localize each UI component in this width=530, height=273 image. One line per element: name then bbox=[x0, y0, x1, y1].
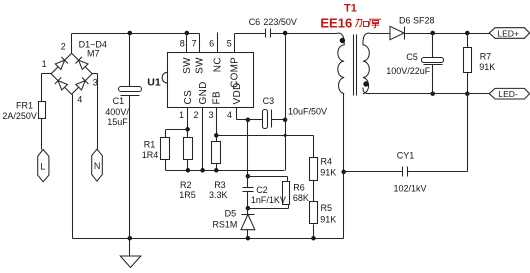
fuse FR1 bbox=[39, 102, 46, 119]
node junction D5 top bbox=[246, 206, 251, 211]
svg-text:C1: C1 bbox=[113, 96, 125, 106]
wire C3-railA vertical bbox=[285, 120, 287, 171]
svg-text:C3: C3 bbox=[263, 96, 275, 106]
wire CS to R1 bbox=[166, 130, 188, 138]
svg-text:R4: R4 bbox=[321, 157, 333, 167]
wire C3 left lead bbox=[248, 119, 263, 121]
wire C6 node vertical bbox=[285, 34, 287, 120]
transformer T1 core bbox=[354, 35, 357, 96]
pin label NC pin6 bbox=[213, 57, 224, 72]
svg-text:R2: R2 bbox=[180, 180, 192, 190]
svg-text:L: L bbox=[40, 162, 45, 172]
svg-text:C5: C5 bbox=[406, 52, 418, 62]
svg-text:2A/250V: 2A/250V bbox=[2, 111, 37, 121]
node junction R2 bottom bbox=[186, 160, 191, 173]
node junction C2 top bbox=[246, 174, 251, 179]
node junction FB-C3 rail bbox=[284, 134, 287, 137]
capacitor C6 bbox=[266, 29, 271, 38]
node junction CY1 tap bbox=[341, 170, 346, 175]
node junction VDD bbox=[246, 118, 251, 123]
svg-text:LED+: LED+ bbox=[497, 28, 519, 38]
svg-text:D5: D5 bbox=[225, 209, 237, 219]
pin 3 bbox=[208, 108, 216, 136]
svg-text:VDD: VDD bbox=[232, 82, 243, 104]
pin 3 bridge bbox=[93, 78, 98, 88]
label C3 bbox=[263, 96, 275, 106]
pin label FB pin3 bbox=[212, 91, 223, 105]
wire bridge right to N bbox=[93, 74, 98, 150]
svg-text:3.3K: 3.3K bbox=[209, 190, 228, 200]
svg-text:EE16: EE16 bbox=[320, 15, 352, 30]
pin 6 NC stub bbox=[209, 33, 217, 53]
label C1 bbox=[113, 96, 125, 106]
label T1 bbox=[344, 3, 357, 15]
wire rail B bbox=[248, 177, 288, 182]
svg-text:3: 3 bbox=[208, 110, 213, 120]
svg-text:4: 4 bbox=[77, 95, 82, 105]
svg-text:R3: R3 bbox=[214, 180, 226, 190]
node junction R7 bottom bbox=[465, 91, 470, 96]
svg-text:91K: 91K bbox=[320, 214, 336, 224]
wire CY1 left bbox=[344, 171, 403, 173]
wire R5 bottom bbox=[313, 225, 315, 239]
node junction R3 bottom bbox=[214, 164, 219, 173]
terminal L bbox=[38, 150, 49, 182]
wire bridge left to FR1 bbox=[42, 74, 52, 102]
label C6 bbox=[249, 17, 261, 27]
svg-text:2: 2 bbox=[61, 42, 66, 52]
wire secondary top to D6 bbox=[370, 33, 391, 35]
svg-text:102/1kV: 102/1kV bbox=[394, 183, 427, 193]
wire bridge top riser bbox=[71, 34, 73, 54]
svg-text:SW: SW bbox=[195, 57, 206, 74]
pin 5 bbox=[227, 34, 235, 53]
svg-text:8: 8 bbox=[180, 38, 185, 48]
transformer T1 secondary bbox=[363, 33, 370, 94]
node phase dot primary bbox=[340, 38, 345, 43]
resistor R5 bbox=[310, 202, 318, 224]
label R1 bbox=[144, 140, 156, 150]
node junction C6 right bbox=[283, 31, 288, 36]
label 3.3K bbox=[209, 190, 228, 200]
label 91K R7 bbox=[479, 62, 495, 72]
svg-text:6: 6 bbox=[209, 38, 214, 48]
node junction C1 bottom bbox=[128, 236, 133, 241]
wire top rail DC bus bbox=[72, 33, 200, 35]
svg-text:FB: FB bbox=[212, 91, 223, 105]
label R5 bbox=[321, 203, 333, 213]
pin label VDD pin4 bbox=[232, 82, 243, 104]
capacitor C1 bbox=[119, 87, 142, 96]
pin label COMP pin5 bbox=[230, 57, 241, 88]
svg-text:5: 5 bbox=[227, 38, 232, 48]
label 91K R5 bbox=[320, 214, 336, 224]
label D5 bbox=[225, 209, 237, 219]
pin 1 bbox=[179, 108, 188, 130]
svg-text:FR1: FR1 bbox=[16, 101, 33, 111]
wire FB net bbox=[217, 135, 314, 137]
label R7 bbox=[480, 52, 492, 62]
svg-text:1R4: 1R4 bbox=[142, 150, 159, 160]
wire C2 lower lead bbox=[247, 192, 249, 209]
label D1~D4 bbox=[79, 39, 107, 49]
label R2 bbox=[180, 180, 192, 190]
wire C1 bottom lead bbox=[129, 96, 131, 239]
pin 8 bbox=[180, 34, 187, 53]
label RS1M bbox=[212, 220, 237, 230]
label M7 bbox=[87, 48, 100, 58]
resistor R4 bbox=[310, 158, 318, 181]
wire C2-R6 bottom rail bbox=[248, 205, 289, 209]
svg-text:R1: R1 bbox=[144, 140, 156, 150]
wire C6 to transformer bbox=[271, 33, 338, 35]
svg-text:1R5: 1R5 bbox=[179, 190, 196, 200]
label U1 bbox=[147, 76, 161, 88]
pin label GND pin2 bbox=[198, 81, 209, 104]
wire rail A bbox=[166, 170, 285, 172]
label 100V/22uF bbox=[386, 66, 431, 76]
wire VDD jog bbox=[237, 119, 248, 121]
svg-text:1: 1 bbox=[179, 110, 184, 120]
label 1R4 bbox=[142, 150, 159, 160]
op-amp U1 body bbox=[162, 53, 253, 108]
diode D5 bbox=[241, 209, 255, 230]
svg-text:7: 7 bbox=[192, 38, 197, 48]
svg-text:100V/22uF: 100V/22uF bbox=[386, 66, 431, 76]
svg-text:1nF/1KV: 1nF/1KV bbox=[251, 195, 286, 205]
label D6 SF28 bbox=[399, 15, 435, 25]
svg-text:400V/: 400V/ bbox=[105, 107, 129, 117]
svg-text:91K: 91K bbox=[479, 62, 495, 72]
svg-text:91K: 91K bbox=[320, 168, 336, 178]
svg-text:4: 4 bbox=[227, 110, 232, 120]
wire CY1 right bbox=[408, 94, 468, 172]
svg-text:R7: R7 bbox=[480, 52, 492, 62]
bridge rectifier D1-D4 bbox=[51, 53, 92, 94]
wire R2 top bbox=[187, 130, 189, 138]
label C2 bbox=[256, 185, 268, 195]
node junction GND rail bbox=[200, 168, 205, 173]
diode D6 bbox=[390, 26, 405, 39]
wire FB to R4 corner bbox=[313, 136, 315, 158]
wire FR1 to L bbox=[41, 119, 43, 150]
pin 4 bridge bbox=[77, 95, 82, 105]
terminal LED+ bbox=[489, 28, 529, 39]
wire bottom rail bbox=[73, 238, 344, 240]
svg-text:15uF: 15uF bbox=[107, 117, 128, 127]
resistor R3 bbox=[212, 142, 221, 164]
pin 2 bridge bbox=[61, 42, 66, 52]
node junction R7 top bbox=[465, 31, 470, 36]
svg-text:10uF/50V: 10uF/50V bbox=[288, 107, 327, 117]
label 223/50V bbox=[263, 17, 297, 27]
label 1nF/1KV bbox=[251, 195, 286, 205]
label 91K R4 bbox=[320, 168, 336, 178]
svg-text:T1: T1 bbox=[344, 3, 357, 15]
svg-text:C2: C2 bbox=[256, 185, 268, 195]
label 400V/ bbox=[105, 107, 129, 117]
node junction C5 top bbox=[430, 31, 435, 36]
terminal LED- bbox=[489, 88, 529, 99]
svg-text:N: N bbox=[94, 161, 101, 171]
svg-text:NC: NC bbox=[213, 57, 224, 72]
resistor R1 bbox=[161, 138, 170, 160]
label CY1 bbox=[397, 150, 415, 160]
pin label CS pin1 bbox=[183, 90, 194, 105]
label 102/1kV bbox=[394, 183, 427, 193]
node CS junction bbox=[185, 127, 190, 132]
capacitor C2 bbox=[243, 188, 254, 192]
svg-text:C6: C6 bbox=[249, 17, 261, 27]
svg-text:R5: R5 bbox=[321, 203, 333, 213]
svg-text:GND: GND bbox=[198, 81, 209, 104]
wire C5 top lead bbox=[432, 34, 434, 58]
wire R1 bottom bbox=[165, 160, 167, 171]
node junction D5 rail bbox=[246, 236, 251, 241]
label R3 bbox=[214, 180, 226, 190]
node junction R5 rail bbox=[311, 236, 316, 241]
pin 1 bridge bbox=[42, 59, 47, 69]
label R4 bbox=[321, 157, 333, 167]
wire R4-R5 bbox=[313, 181, 315, 202]
wire D5 bottom lead bbox=[247, 230, 249, 239]
label 15uF bbox=[107, 117, 128, 127]
transformer T1 primary bbox=[337, 33, 344, 94]
label C5 bbox=[406, 52, 418, 62]
wire C2 upper lead bbox=[247, 177, 249, 188]
wire primary bottom vertical bbox=[343, 94, 345, 239]
svg-text:68K: 68K bbox=[293, 193, 309, 203]
node junction C1 top bbox=[128, 31, 133, 36]
label FR1 bbox=[16, 101, 33, 111]
resistor R6 bbox=[283, 182, 290, 205]
svg-text:2: 2 bbox=[193, 110, 198, 120]
wire C1 top lead bbox=[129, 34, 131, 87]
capacitor C3 bbox=[263, 110, 272, 129]
label 2A/250V bbox=[2, 111, 37, 121]
label R6 bbox=[293, 182, 305, 192]
svg-text:RS1M: RS1M bbox=[212, 220, 237, 230]
label EE16 bbox=[320, 15, 352, 30]
svg-text:D6 SF28: D6 SF28 bbox=[399, 15, 435, 25]
ground bbox=[120, 239, 141, 268]
pin label SW pin7 bbox=[195, 57, 206, 74]
terminal N bbox=[92, 149, 103, 181]
wire secondary bottom bbox=[363, 88, 490, 94]
pin 4 bbox=[227, 108, 237, 120]
svg-text:223/50V: 223/50V bbox=[263, 17, 297, 27]
resistor R2 bbox=[184, 138, 193, 160]
node phase dot secondary bbox=[363, 81, 368, 86]
capacitor CY1 bbox=[403, 167, 408, 177]
node junction pin8 bbox=[185, 31, 190, 36]
resistor R7 bbox=[464, 34, 472, 94]
svg-text:M7: M7 bbox=[87, 48, 100, 58]
node junction C3 right bbox=[283, 118, 288, 123]
wire C3 right lead bbox=[272, 119, 286, 121]
label 68K bbox=[293, 193, 309, 203]
svg-text:CS: CS bbox=[183, 90, 194, 105]
wire D6 to LED+ bbox=[405, 33, 490, 35]
node junction C5 bottom bbox=[430, 91, 435, 96]
svg-text:U1: U1 bbox=[147, 76, 161, 88]
svg-text:SW: SW bbox=[182, 57, 193, 74]
svg-text:R6: R6 bbox=[293, 182, 305, 192]
wire FB to R3 bbox=[216, 136, 218, 142]
svg-text:1: 1 bbox=[42, 59, 47, 69]
svg-text:LED-: LED- bbox=[498, 89, 518, 99]
node FB junction bbox=[214, 133, 219, 138]
label 10uF/50V bbox=[288, 107, 327, 117]
pin 7 bbox=[192, 34, 200, 53]
wire VDD-C2 vertical bbox=[247, 120, 249, 177]
wire C5 bottom lead bbox=[432, 65, 434, 94]
pin 2 GND wire bbox=[193, 108, 202, 171]
wire bridge bottom to ground rail bbox=[72, 95, 73, 239]
wire pin5 to C6 bbox=[235, 33, 266, 35]
pin label SW pin8 bbox=[182, 57, 193, 74]
svg-text:CY1: CY1 bbox=[397, 150, 415, 160]
label 1R5 bbox=[179, 190, 196, 200]
capacitor C5 bbox=[422, 58, 444, 65]
label JiaHou bbox=[355, 19, 381, 28]
